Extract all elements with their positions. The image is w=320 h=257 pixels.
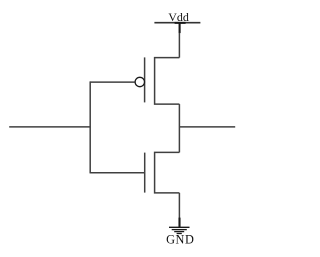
wire: input gate vertical: [89, 81, 91, 173]
ground plate 3: [174, 231, 184, 233]
svg-text:GND: GND: [166, 232, 194, 246]
ground plate 1: [169, 226, 190, 228]
NMOS drain stub, channel bar, source stub: [155, 152, 180, 193]
ground plate 2: [172, 229, 187, 231]
PMOS source stub, channel bar, drain stub: [155, 58, 180, 105]
transistor Q2 NMOS: [145, 152, 180, 193]
wire: NMOS gate: [90, 172, 145, 174]
wire: Vdd to PMOS source: [178, 33, 180, 58]
wire: PMOS drain to output node to NMOS drain: [178, 104, 180, 152]
wire: output horizontal: [179, 126, 235, 128]
PMOS gate bubble: [135, 77, 144, 86]
wire: input horizontal: [9, 126, 90, 128]
wire: PMOS gate: [90, 81, 135, 83]
NMOS gate bar: [144, 153, 146, 193]
Vdd power rail: [154, 22, 200, 24]
ground port symbol: [169, 218, 190, 234]
PMOS gate bar: [144, 57, 146, 102]
transistor Q1 PMOS: [135, 57, 179, 104]
ground plate 4: [177, 233, 182, 235]
ground lead: [178, 218, 180, 228]
Vdd port symbol (thick T bar and lead): [175, 22, 186, 33]
wire: NMOS source to ground: [178, 193, 180, 218]
